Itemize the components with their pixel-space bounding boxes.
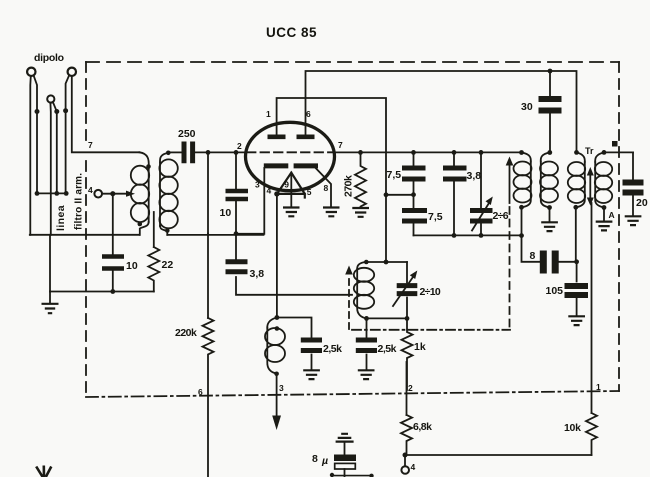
resistor R 22 zigzag xyxy=(148,247,159,292)
trimmer C 2÷6 plates xyxy=(470,211,493,222)
junction dot cap30 top xyxy=(548,69,553,74)
ground symbol 270k xyxy=(352,208,369,217)
wire terminal4 to transformer tap xyxy=(102,193,126,195)
antenna ground rail xyxy=(30,234,140,236)
tuner box dashed border : left edge xyxy=(85,62,87,143)
junction dot choke bottom xyxy=(274,372,279,377)
junction dot filter v1 top xyxy=(411,150,416,155)
wire choke down through border xyxy=(276,374,278,415)
svg-text:µ: µ xyxy=(321,455,328,467)
wire: right circle main lead down then right to terminal 7 xyxy=(72,76,140,152)
junction dot on left slant lead xyxy=(35,109,40,114)
junction dot IF right top xyxy=(547,150,552,155)
svg-text:10: 10 xyxy=(220,207,232,219)
svg-text:1: 1 xyxy=(596,382,601,392)
junction dot Tr left bottom xyxy=(573,205,578,210)
anode plate pin 1 xyxy=(268,135,286,140)
Tr secondary winding xyxy=(595,152,604,162)
svg-text:3,8: 3,8 xyxy=(250,268,265,280)
ground rail right segment under T1 xyxy=(167,234,263,236)
antenna terminal circle right xyxy=(68,68,76,76)
ground symbol antenna xyxy=(49,292,51,304)
electrolytic C 8u bottom lead xyxy=(344,469,346,477)
junction dot coil top xyxy=(364,260,369,265)
T1 primary winding xyxy=(140,152,149,166)
svg-text:105: 105 xyxy=(546,285,564,297)
T1 primary bottom dot xyxy=(138,222,143,227)
svg-text:4: 4 xyxy=(411,462,416,472)
capacitor C 20 plates xyxy=(623,183,644,193)
wire: middle circle slant lead xyxy=(53,102,57,194)
svg-text:270k: 270k xyxy=(343,175,355,197)
svg-text:7: 7 xyxy=(88,140,93,150)
resistor R 10k xyxy=(586,413,597,455)
resistor R 270k xyxy=(355,152,366,207)
svg-text:22: 22 xyxy=(162,259,174,271)
svg-text:2÷6: 2÷6 xyxy=(493,210,509,222)
wire choke top to 2,5k cap xyxy=(277,318,312,338)
wire: rail down to ground xyxy=(49,235,51,292)
wire Tr primary bottom down to cap105 xyxy=(575,207,578,281)
T1 core tap line down to R 22 xyxy=(153,212,155,247)
ground symbol cap 20 xyxy=(625,216,642,225)
junction dot strap left xyxy=(35,191,40,196)
resistor R 1k xyxy=(402,318,413,390)
capacitor C 105 plates xyxy=(565,286,589,295)
tuner box dashed border : top edge xyxy=(86,61,619,63)
svg-text:7,5: 7,5 xyxy=(387,169,402,181)
ground symbol 2,5k osc xyxy=(358,370,375,379)
wire: left circle slant lead xyxy=(34,75,37,193)
cathode bar left (pin 3) xyxy=(264,163,289,168)
capacitor C 30 plates xyxy=(539,99,562,111)
wire anode6 lead up and right B+ xyxy=(306,71,577,152)
trimmer C 2÷6 arrow xyxy=(472,203,489,231)
terminal 4 circle xyxy=(94,190,102,198)
tuning gang dashed arrow beside oscillator coil xyxy=(348,276,350,329)
svg-text:2: 2 xyxy=(408,383,413,393)
capacitor C 3,8 lead xyxy=(236,234,352,295)
Tr core tuning double arrow xyxy=(589,174,591,199)
capacitor C 7,5 upper plates xyxy=(402,168,426,179)
oscillator shield box : bottom dash-dot edge xyxy=(352,329,510,331)
capacitor C 10 lead xyxy=(235,152,237,233)
svg-text:2,5k: 2,5k xyxy=(323,343,342,355)
oscillator coil L xyxy=(357,262,366,269)
junction dot anode1 tap left xyxy=(384,192,389,197)
svg-text:8: 8 xyxy=(312,453,318,465)
junction dot choke top xyxy=(275,315,280,320)
arrow head terminal 3 xyxy=(272,416,281,431)
svg-text:5: 5 xyxy=(307,187,312,197)
T1 secondary winding xyxy=(160,153,168,163)
ground symbol IF right xyxy=(541,222,558,231)
electrolytic C 8u positive plate xyxy=(334,455,356,462)
bottom wire to 10k xyxy=(405,454,592,456)
terminal 4 lower circle xyxy=(404,455,406,466)
junction dot x236 xyxy=(234,150,239,155)
svg-text:10: 10 xyxy=(126,260,138,272)
wire grid7 to IF filter xyxy=(334,151,522,153)
svg-text:2: 2 xyxy=(237,141,242,151)
capacitor C 2,5k (osc) plates xyxy=(356,340,377,351)
wire IF left bottom to cap8 xyxy=(522,207,540,261)
wire Tr secondary to cap 20 xyxy=(604,151,633,153)
wire: middle circle main down-lead xyxy=(49,103,51,235)
junction dot x208 xyxy=(206,150,211,155)
trimmer C 2÷6 leads xyxy=(480,152,482,235)
junction dot IF right bottom xyxy=(547,205,552,210)
capacitor C 2,5k (osc) lead xyxy=(366,318,368,369)
svg-text:linea: linea xyxy=(55,205,67,231)
pin 8 lead diagonal to ground xyxy=(316,168,332,207)
IF transformer right winding xyxy=(541,153,550,162)
IF right winding ground lead xyxy=(549,208,551,222)
svg-text:10k: 10k xyxy=(564,422,581,434)
wire secondary to cap 250 xyxy=(168,151,181,153)
strap wire joining slant leads xyxy=(37,192,66,194)
resistor R 6,8k xyxy=(401,415,412,455)
tube envelope xyxy=(246,122,335,190)
capacitor C 7,5 upper leads xyxy=(413,152,415,235)
Tr primary winding xyxy=(577,152,585,162)
junction dot filter v2 top xyxy=(452,150,457,155)
svg-text:2÷10: 2÷10 xyxy=(420,286,441,298)
anode plate pin 6 xyxy=(297,135,315,140)
junction dot IF left top xyxy=(519,150,524,155)
wire anode1 lead up and right to oscillator xyxy=(277,98,386,262)
ground symbol pin 8 xyxy=(323,208,340,217)
capacitor C 8 plates xyxy=(543,251,555,274)
grid dashed line through tube xyxy=(247,151,334,153)
electrolytic C 8u top lead xyxy=(344,443,346,455)
capacitor C 7,5 lower plates xyxy=(402,211,427,222)
ground symbol 2,5k choke xyxy=(303,370,320,379)
svg-text:4: 4 xyxy=(267,186,272,196)
svg-text:8: 8 xyxy=(530,250,536,262)
svg-text:6,8k: 6,8k xyxy=(413,421,432,433)
Tr centre lead down to 10k xyxy=(591,203,593,413)
junction dot filter v3 top xyxy=(479,150,484,155)
antenna terminal circle middle xyxy=(47,95,54,102)
bottom-left partial mark xyxy=(36,466,51,477)
capacitor C 10 (antenna) plates xyxy=(102,257,124,269)
tank top wire xyxy=(366,261,407,263)
resistor R 220k zigzag xyxy=(203,318,214,477)
junction dot rail right xyxy=(519,233,524,238)
tuner box dash-dot bottom edge xyxy=(86,391,619,397)
T1 primary top dot xyxy=(146,164,151,169)
svg-text:250: 250 xyxy=(178,128,196,140)
junction dot rail c3,8 xyxy=(452,233,457,238)
wire: left circle main down-lead to ground rail xyxy=(29,76,32,235)
terminal B mark xyxy=(612,141,618,147)
capacitor C 250 plates xyxy=(184,142,193,164)
svg-text:2,5k: 2,5k xyxy=(378,343,397,355)
trimmer C 2÷10 plates xyxy=(397,286,418,294)
ground symbol 105 xyxy=(568,316,585,325)
capacitor C 105 lower lead xyxy=(576,298,578,316)
tuner box dashed border : right edge xyxy=(618,62,620,391)
wire cap8 to 105 line xyxy=(559,261,577,263)
ground symbol Tr (A) xyxy=(596,222,613,231)
junction dot Tr left top xyxy=(574,150,579,155)
svg-text:A: A xyxy=(609,210,615,220)
junction dot Tr right top xyxy=(602,150,607,155)
svg-text:3,8: 3,8 xyxy=(467,170,482,182)
cathode bar right (pin 8) xyxy=(294,163,318,168)
antenna terminal circle left xyxy=(27,68,35,76)
junction dot on right slant lead xyxy=(63,108,68,113)
trimmer C 2÷10 leads xyxy=(406,262,408,318)
bottom edge wire remnants near 8u xyxy=(330,473,334,477)
heater filament xyxy=(277,173,305,198)
junction dot IF left bottom xyxy=(519,205,524,210)
junction dot rail x236 xyxy=(234,231,239,236)
tuning gang arrow for trimmer 2÷6 xyxy=(509,166,511,203)
resistor R 220k line xyxy=(207,234,209,318)
junction dot on terminal4 wire xyxy=(110,191,115,196)
capacitor C 3,8 (second) leads xyxy=(453,152,455,235)
wire anode1 tap to filter xyxy=(386,194,414,196)
junction dot anode1 tap right xyxy=(411,192,416,197)
capacitor C 30 leads xyxy=(549,71,551,152)
wire pin 4 heater lead down to choke xyxy=(276,194,278,318)
junction dot tank top xyxy=(384,260,389,265)
inverted chassis bars above 8u xyxy=(336,434,354,442)
junction dot rail trimmer xyxy=(479,233,484,238)
svg-text:1k: 1k xyxy=(414,341,426,353)
junction dot tank bottom left xyxy=(364,316,369,321)
svg-text:3: 3 xyxy=(255,180,260,190)
svg-text:8: 8 xyxy=(324,183,329,193)
tap arrowhead into coil xyxy=(126,191,135,197)
svg-text:220k: 220k xyxy=(175,327,197,339)
junction dot choke upper xyxy=(275,326,280,331)
svg-text:1: 1 xyxy=(266,109,271,119)
T1 secondary top dot xyxy=(166,151,171,156)
oscillator shield box : right dashed edge xyxy=(509,207,511,330)
svg-text:3: 3 xyxy=(279,383,284,393)
pin 9 lead xyxy=(290,173,292,207)
junction dot cap10a bottom xyxy=(110,289,115,294)
Tr secondary ground lead xyxy=(603,208,605,221)
T1 secondary bottom dot xyxy=(165,228,170,233)
trimmer C 2÷10 arrow xyxy=(393,277,413,306)
svg-text:6: 6 xyxy=(198,387,203,397)
junction dot on middle slant lead xyxy=(54,109,59,114)
heater choke coil xyxy=(267,318,277,329)
electrolytic C 8u negative plate xyxy=(335,463,356,469)
svg-text:7,5: 7,5 xyxy=(428,211,443,223)
pin 4 junction dot xyxy=(274,191,279,196)
capacitor C 10 (antenna) lead xyxy=(112,194,114,292)
svg-text:7: 7 xyxy=(338,140,343,150)
svg-text:20: 20 xyxy=(636,197,648,209)
junction dot 270k top xyxy=(358,150,363,155)
resistor R 1k lower lead through border xyxy=(406,362,408,415)
pin 3 lead down and left to rail xyxy=(236,168,264,234)
capacitor C 3,8 plates xyxy=(226,262,248,272)
wire cap 250 to tube grid pin 2 xyxy=(196,151,246,153)
svg-text:30: 30 xyxy=(521,101,533,113)
svg-text:dipolo: dipolo xyxy=(34,52,64,64)
wire: right circle slant lead xyxy=(66,75,70,193)
junction dot tank bottom right xyxy=(405,316,410,321)
svg-text:filtro II arm.: filtro II arm. xyxy=(74,173,85,230)
junction dot terminal4 bottom xyxy=(403,453,408,458)
svg-text:4: 4 xyxy=(88,185,93,195)
capacitor C 10 plates xyxy=(226,191,249,199)
capacitor C 2,5k (choke) plates xyxy=(301,340,322,351)
wire: ground bus xyxy=(50,291,154,293)
svg-text:UCC 85: UCC 85 xyxy=(266,25,317,40)
ground symbol pin 9 xyxy=(283,208,300,217)
tank bottom wire xyxy=(367,317,408,319)
svg-text:Tr: Tr xyxy=(585,146,594,156)
junction dot strap right xyxy=(64,191,69,196)
filter bottom rail xyxy=(414,234,522,236)
IF transformer left winding xyxy=(522,153,531,162)
junction dot cap8 right xyxy=(574,259,579,264)
svg-text:9: 9 xyxy=(284,179,289,189)
wire x208 main to rail xyxy=(207,152,209,233)
junction dot strap middle xyxy=(54,191,59,196)
junction dot Tr right bottom xyxy=(602,205,607,210)
capacitor C 2,5k (choke) lower lead xyxy=(311,355,313,370)
capacitor C 3,8 (second) plates xyxy=(443,168,467,179)
svg-text:6: 6 xyxy=(306,109,311,119)
capacitor C 20 leads xyxy=(632,152,634,215)
